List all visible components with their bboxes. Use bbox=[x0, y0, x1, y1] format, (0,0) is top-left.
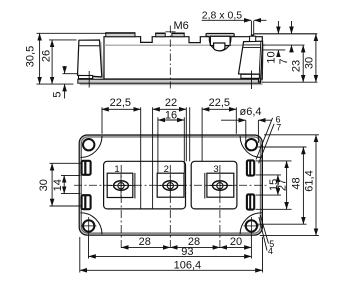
svg-text:ø6,4: ø6,4 bbox=[239, 106, 261, 118]
svg-text:7: 7 bbox=[278, 58, 290, 64]
terminal pad 1 bbox=[106, 33, 135, 37]
baseplate shadow bbox=[80, 81, 263, 85]
dim 30,5 bbox=[39, 33, 41, 84]
svg-text:30: 30 bbox=[303, 57, 315, 69]
mounting hole bottom-right bbox=[246, 220, 257, 231]
svg-text:30: 30 bbox=[38, 179, 50, 191]
dim 28 a bbox=[121, 246, 170, 248]
terminal 2 centerline (side view) bbox=[169, 26, 171, 89]
module outline outer (baseplate edge, gray band) bbox=[79, 135, 262, 235]
top view dim texts bbox=[38, 97, 316, 272]
module body (side view) bbox=[104, 37, 262, 79]
right foot center tick bbox=[251, 71, 253, 90]
svg-text:23: 23 bbox=[291, 60, 303, 72]
o6,4 ext lines bbox=[245, 120, 247, 144]
ext line t3 collar bbox=[201, 107, 203, 161]
terminal 3 square bbox=[207, 173, 234, 197]
dim 26 bbox=[51, 40, 53, 84]
dim 5 arrows bbox=[64, 66, 66, 74]
svg-text:27: 27 bbox=[277, 179, 289, 191]
svg-text:106,4: 106,4 bbox=[174, 260, 202, 272]
ext line foot top (5) bbox=[63, 73, 79, 75]
right terminal block shadow bbox=[241, 43, 265, 84]
ext line lid right bbox=[235, 107, 237, 134]
dim 48 bbox=[302, 147, 304, 224]
svg-text:5: 5 bbox=[52, 91, 64, 97]
corner ear bottom-right bbox=[240, 213, 262, 235]
left dim refs bbox=[50, 162, 81, 164]
bottom hole cross ticks bbox=[81, 217, 259, 234]
svg-text:4: 4 bbox=[268, 246, 273, 256]
left terminal block shadow bbox=[78, 42, 104, 79]
svg-text:10: 10 bbox=[265, 51, 277, 63]
svg-text:48: 48 bbox=[290, 177, 302, 189]
vertical centerline t1 bbox=[120, 165, 122, 249]
ext lines terminal2 square bbox=[157, 117, 159, 173]
left terminal block bbox=[78, 40, 102, 77]
terminal 3 tick bbox=[204, 173, 206, 199]
terminal pad 2a bbox=[156, 33, 166, 37]
aux terminal right lower bbox=[247, 194, 254, 209]
vertical centerline t3 bbox=[219, 165, 221, 249]
right terminal block bbox=[239, 41, 263, 82]
baseplate bbox=[78, 79, 261, 83]
svg-text:28: 28 bbox=[139, 236, 151, 248]
ref line 7 bbox=[263, 44, 305, 46]
lid section B bbox=[191, 161, 237, 209]
tab ext lines bbox=[250, 21, 252, 36]
corner ear bottom-left bbox=[81, 213, 103, 235]
svg-text:3: 3 bbox=[213, 164, 218, 175]
mounting hole top-right bbox=[246, 139, 257, 150]
left terminal inner line bbox=[79, 45, 100, 47]
terminal 1 square bbox=[107, 173, 133, 197]
mounting hole bottom-left bbox=[83, 220, 94, 231]
screw terminal 1 bbox=[114, 181, 129, 191]
solid crosshair segments through screws bbox=[108, 174, 234, 197]
dim 14 left bbox=[63, 175, 65, 193]
terminal pad 2b bbox=[172, 33, 184, 37]
dim 2,8x0,5 line bbox=[202, 19, 252, 21]
bottom ext lines bbox=[79, 237, 81, 273]
svg-text:14: 14 bbox=[52, 179, 64, 191]
right block inner right edge bbox=[259, 41, 261, 82]
dim 93 bbox=[89, 255, 252, 257]
aux terminal left upper bbox=[82, 161, 91, 175]
screw terminal 3 bbox=[213, 181, 228, 191]
dim 10 up arrow bbox=[277, 50, 279, 56]
dim 61,4 bbox=[315, 135, 317, 236]
right block inner lines bbox=[243, 44, 261, 46]
dim 7 down arrow bbox=[291, 21, 293, 34]
dim 27 bbox=[286, 161, 288, 209]
mounting hole top-left bbox=[83, 139, 94, 150]
leader 4 bbox=[259, 217, 267, 251]
lid section A bbox=[104, 161, 186, 209]
right terminal foot bbox=[241, 74, 260, 78]
dim 16 bbox=[158, 119, 184, 121]
ext line lid left bbox=[101, 107, 103, 134]
svg-text:2,8 x 0,5: 2,8 x 0,5 bbox=[202, 10, 242, 22]
left foot center tick bbox=[88, 71, 90, 88]
dim 22 bbox=[153, 108, 187, 110]
leader 5 bbox=[260, 215, 268, 243]
svg-text:16: 16 bbox=[165, 110, 177, 122]
clamp screw hole bbox=[214, 43, 225, 51]
left terminal foot shadow bbox=[80, 77, 94, 80]
dim 28 b bbox=[170, 246, 220, 248]
horizontal centerline bbox=[74, 184, 269, 186]
ext line baseplate bottom left bbox=[37, 83, 74, 85]
dim 23 bbox=[302, 45, 304, 82]
screw terminal 2 bbox=[163, 181, 178, 191]
ext lines rib2 bbox=[185, 107, 187, 161]
ref line 10 bbox=[263, 49, 286, 51]
dim 106,4 bbox=[80, 269, 263, 271]
svg-text:22,5: 22,5 bbox=[209, 97, 230, 109]
aux terminal left lower bbox=[82, 195, 91, 209]
dim 20 bbox=[220, 246, 252, 248]
svg-text:22,5: 22,5 bbox=[110, 97, 131, 109]
dim o6,4 arrows bbox=[221, 119, 246, 121]
dim 22,5 left bbox=[102, 108, 141, 110]
dim 10 down arrow bbox=[277, 21, 279, 34]
dim 15 bbox=[277, 175, 279, 195]
dim 7 up arrow bbox=[291, 45, 293, 52]
ext line terminal top (26) bbox=[49, 39, 77, 41]
svg-text:2: 2 bbox=[164, 164, 169, 175]
ref line baseplate bottom right bbox=[262, 81, 317, 83]
corner ear top-left bbox=[81, 136, 103, 158]
side view dim texts bbox=[25, 10, 316, 98]
right dim refs bbox=[256, 160, 292, 162]
leader 6 bbox=[256, 118, 273, 160]
svg-text:93: 93 bbox=[181, 246, 193, 258]
terminal 1 tick bbox=[134, 173, 136, 199]
svg-text:7: 7 bbox=[276, 123, 281, 133]
module outline inner (case edge) bbox=[81, 137, 260, 233]
top ref line right bbox=[254, 33, 317, 35]
terminal 2 square bbox=[157, 173, 184, 197]
fast-on tab (2,8x0,5) bbox=[250, 36, 256, 41]
leader 7 bbox=[259, 124, 275, 164]
case seam line bbox=[104, 44, 262, 46]
left terminal foot bbox=[79, 76, 93, 79]
vertical centerline t2 bbox=[169, 165, 171, 249]
svg-text:22: 22 bbox=[165, 97, 177, 109]
svg-text:20: 20 bbox=[230, 236, 242, 248]
clamp nut pocket bbox=[210, 36, 230, 45]
aux terminal right upper bbox=[247, 160, 254, 175]
M6 clamp (terminal 3 nut holder) bbox=[206, 33, 234, 50]
dim 22,5 right bbox=[202, 108, 236, 110]
dim 30 bbox=[315, 34, 317, 82]
svg-text:30,5: 30,5 bbox=[25, 46, 37, 67]
rib between terminal 1 and 2 bbox=[140, 107, 142, 209]
svg-text:61,4: 61,4 bbox=[304, 170, 316, 191]
svg-text:1: 1 bbox=[114, 164, 119, 175]
corner ear top-right bbox=[240, 136, 262, 158]
svg-text:26: 26 bbox=[41, 50, 53, 62]
svg-text:M6: M6 bbox=[174, 20, 189, 32]
dim 30 left bbox=[51, 163, 53, 206]
ext line top (30,5) bbox=[37, 32, 107, 34]
